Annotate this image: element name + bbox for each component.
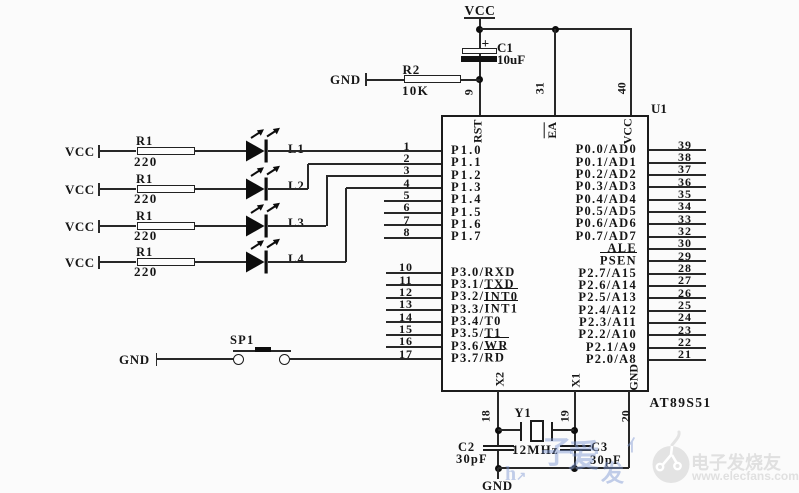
wire L2 riser to pin 2 xyxy=(308,163,441,165)
power label VCC (row L1) xyxy=(65,145,95,159)
wire LED L3 to riser xyxy=(268,225,326,227)
pin name P3.0/RXD xyxy=(451,266,516,279)
watermark blue char 1 xyxy=(541,427,572,472)
pin 32 stub xyxy=(649,236,706,238)
pin number 3 xyxy=(396,164,418,177)
power label GND (R2) xyxy=(330,73,361,87)
pin 35 stub xyxy=(649,199,706,201)
pin name P0.5/AD5 xyxy=(474,205,637,218)
pin number 14 xyxy=(393,311,419,324)
power label VCC (row L2) xyxy=(65,183,95,197)
pin 14 stub xyxy=(386,321,441,323)
wire X1 pin 19 down xyxy=(574,391,576,446)
resistor R1 body (row L2) xyxy=(137,185,195,193)
wire EA branch to pin 31 xyxy=(554,29,556,115)
pin 28 stub xyxy=(649,273,706,275)
pin 30 stub xyxy=(649,248,706,250)
pin number 23 xyxy=(674,324,696,337)
pin number 1 xyxy=(396,140,418,153)
pin name P0.7/AD7 xyxy=(474,230,637,243)
label Y1 xyxy=(515,407,532,420)
value 10uF xyxy=(497,53,525,67)
wire L3 riser to pin 3 xyxy=(326,175,441,177)
watermark blue char 2 xyxy=(568,431,600,477)
pin 38 stub xyxy=(649,162,706,164)
pin number 17 xyxy=(393,348,419,361)
wire SP1 to pin 17 xyxy=(289,358,441,360)
wire ground rail (bottom) xyxy=(498,467,629,469)
pin name P1.3 xyxy=(451,181,483,194)
pin name X1 xyxy=(569,366,582,394)
wire LED L1 to pin 1 xyxy=(268,150,441,152)
wire riser L2 xyxy=(307,164,309,189)
pin name P0.1/AD1 xyxy=(474,156,637,169)
power label GND (bottom) xyxy=(482,479,513,493)
pin name P2.7/A15 xyxy=(474,267,637,280)
wire GND pin 20 down xyxy=(628,391,630,468)
watermark blue mark small xyxy=(627,432,643,456)
switch SP1 bar xyxy=(233,350,291,352)
pin name ALE xyxy=(474,242,637,255)
switch SP1 right contact xyxy=(279,354,290,365)
pin 12 stub xyxy=(386,297,441,299)
pin name RST xyxy=(471,113,484,149)
op IC U1 AT89S51 body xyxy=(441,115,649,392)
pin number 6 xyxy=(396,201,418,214)
pin number 8 xyxy=(396,226,418,239)
wire R1 to LED L2 xyxy=(194,188,247,190)
capacitor C2 bottom plate xyxy=(483,449,514,451)
value 30pF (C2) xyxy=(456,453,488,466)
pin name P3.1/TXD xyxy=(451,278,515,291)
wire ground stem xyxy=(497,468,499,479)
wire LED L4 to riser xyxy=(268,261,346,263)
power label VCC (top) xyxy=(461,4,499,18)
pin name P2.0/A8 xyxy=(474,353,637,366)
pin number 16 xyxy=(393,335,419,348)
pin name P3.6/WR xyxy=(451,340,509,353)
pin name P2.5/A13 xyxy=(474,291,637,304)
pin 25 stub xyxy=(649,310,706,312)
wire VCC rail to pin 40 xyxy=(480,28,632,30)
pin name P2.2/A10 xyxy=(474,328,637,341)
pin 22 stub xyxy=(649,347,706,349)
watermark elecfans logo xyxy=(650,428,694,488)
capacitor C2 top plate xyxy=(483,445,514,447)
junction VCC rail / EA branch xyxy=(552,26,559,33)
pin 16 stub xyxy=(386,346,441,348)
pin number 4 xyxy=(396,177,418,190)
wire crystal to X1 xyxy=(553,429,574,431)
pin 34 stub xyxy=(649,211,706,213)
label L2 xyxy=(288,180,305,193)
wire R1 to LED L4 xyxy=(194,261,247,263)
pin name VCC (pin 40) xyxy=(621,113,634,149)
watermark blue mark h xyxy=(505,463,526,486)
pin name PSEN xyxy=(474,254,637,267)
pin 5 stub xyxy=(384,200,441,202)
pin name P2.6/A14 xyxy=(474,279,637,292)
pin name P1.1 xyxy=(451,156,483,169)
pin number 18 xyxy=(480,399,493,433)
pin 26 stub xyxy=(649,297,706,299)
pin 21 stub xyxy=(649,359,706,361)
junction X2 / crystal xyxy=(495,427,502,434)
VCC symbol bar xyxy=(464,17,495,19)
pin name P2.4/A12 xyxy=(474,304,637,317)
pin number 26 xyxy=(674,287,696,300)
pin name P3.5/T1 xyxy=(451,327,502,340)
wire VCC to R1 (row L4) xyxy=(100,261,136,263)
pin 39 stub xyxy=(649,149,706,151)
value 220 (row L2) xyxy=(134,192,158,206)
LED L2 xyxy=(244,164,284,203)
pin number 12 xyxy=(393,286,419,299)
label R1 (row L1) xyxy=(136,135,153,148)
switch SP1 actuator xyxy=(255,347,271,352)
power label GND (SP1) xyxy=(119,353,150,367)
pin 27 stub xyxy=(649,285,706,287)
pin number 22 xyxy=(674,336,696,349)
wire LED L2 to riser xyxy=(268,188,308,190)
capacitor C3 bottom plate xyxy=(560,449,591,451)
wire VCC rail down to pin 40 xyxy=(630,29,632,115)
resistor R1 body (row L4) xyxy=(137,258,195,266)
pin number 11 xyxy=(393,274,419,287)
pin number 15 xyxy=(393,323,419,336)
pin 8 stub xyxy=(384,237,441,239)
pin name X2 xyxy=(493,365,506,393)
resistor R1 body (row L1) xyxy=(137,147,195,155)
pin number 19 xyxy=(558,399,571,433)
wire VCC to R1 (row L3) xyxy=(100,225,136,227)
pin 29 stub xyxy=(649,260,706,262)
label C2 xyxy=(458,441,475,454)
pin 10 stub xyxy=(386,272,441,274)
pin number 13 xyxy=(393,298,419,311)
power label VCC (row L4) xyxy=(65,256,95,270)
pin name P0.2/AD2 xyxy=(474,168,637,181)
label C1 xyxy=(497,41,513,55)
pin name P0.6/AD6 xyxy=(474,217,637,230)
pin 15 stub xyxy=(386,334,441,336)
wire VCC to R1 (row L2) xyxy=(100,188,136,190)
capacitor C1 bottom plate xyxy=(461,56,497,62)
GND tick (R2) xyxy=(365,73,367,87)
resistor R2 body xyxy=(404,75,461,83)
pin number 40 xyxy=(615,71,628,105)
pin number 38 xyxy=(674,151,696,164)
label L3 xyxy=(288,217,305,230)
pin number 33 xyxy=(674,213,696,226)
pin number 7 xyxy=(396,214,418,227)
label L4 xyxy=(288,253,305,266)
switch SP1 left contact xyxy=(233,354,244,365)
pin name P1.0 xyxy=(451,144,483,157)
wire X2 to crystal xyxy=(498,429,521,431)
label L1 xyxy=(288,143,305,156)
pin number 30 xyxy=(674,237,696,250)
pin name GND (pin 20) xyxy=(627,359,640,395)
pin 37 stub xyxy=(649,174,706,176)
capacitor C1 top plate xyxy=(462,48,497,54)
pin number 37 xyxy=(674,163,696,176)
wire riser L3 xyxy=(326,176,328,226)
pin number 36 xyxy=(674,176,696,189)
pin number 27 xyxy=(674,274,696,287)
pin number 28 xyxy=(674,262,696,275)
wire GND to SP1 xyxy=(157,358,234,360)
resistor R1 body (row L3) xyxy=(137,222,195,230)
pin name P1.2 xyxy=(451,169,483,182)
wire VCC bar to RST node xyxy=(479,18,481,115)
wire R1 to LED L3 xyxy=(194,225,247,227)
pin 7 stub xyxy=(384,224,441,226)
value 220 (row L3) xyxy=(134,229,158,243)
LED L4 xyxy=(244,237,284,276)
junction X1 / ground rail xyxy=(571,465,578,472)
pin name P2.3/A11 xyxy=(474,316,637,329)
pin number 29 xyxy=(674,250,696,263)
value 12MHz xyxy=(512,443,559,457)
pin name P3.4/T0 xyxy=(451,315,502,328)
pin name P1.6 xyxy=(451,218,483,231)
pin 24 stub xyxy=(649,322,706,324)
pin name P1.4 xyxy=(451,193,483,206)
crystal Y1 right electrode xyxy=(551,422,553,441)
pin number 25 xyxy=(674,299,696,312)
pin name P0.0/AD0 xyxy=(474,143,637,156)
wire VCC to R1 (row L1) xyxy=(100,150,136,152)
value 220 (row L1) xyxy=(134,155,158,169)
value 10K xyxy=(402,84,429,98)
value 30pF (C3) xyxy=(590,454,622,467)
LED L3 xyxy=(244,201,284,240)
C1 polarity + xyxy=(482,37,490,51)
pin name P3.7/RD xyxy=(451,352,505,365)
pin number 32 xyxy=(674,225,696,238)
wire X2 below C2 xyxy=(497,450,499,468)
pin name P2.1/A9 xyxy=(474,341,637,354)
pin number 9 xyxy=(463,75,476,109)
label C3 xyxy=(591,441,608,454)
pin number 34 xyxy=(674,200,696,213)
pin number 20 xyxy=(619,399,632,433)
pin 6 stub xyxy=(384,212,441,214)
capacitor C3 top plate xyxy=(560,445,591,447)
watermark blue char 3 xyxy=(601,454,624,488)
pin number 10 xyxy=(393,261,419,274)
pin name P1.5 xyxy=(451,206,483,219)
label U1 xyxy=(651,102,667,116)
pin 36 stub xyxy=(649,186,706,188)
label AT89S51 xyxy=(650,396,712,410)
wire GND to R2 xyxy=(366,79,404,81)
pin number 31 xyxy=(534,71,547,105)
VCC tick (row L3) xyxy=(98,220,100,233)
label R2 xyxy=(403,63,421,77)
wire R1 to LED L1 xyxy=(194,150,247,152)
label R1 (row L2) xyxy=(136,173,153,186)
VCC tick (row L4) xyxy=(98,256,100,269)
pin number 35 xyxy=(674,188,696,201)
pin name P3.3/INT1 xyxy=(451,303,518,316)
power label VCC (row L3) xyxy=(65,220,95,234)
wire X2 pin 18 down xyxy=(497,391,499,446)
VCC tick (row L2) xyxy=(98,183,100,196)
junction RST node (R2 / C1 / pin 9) xyxy=(476,76,483,83)
wire riser L4 xyxy=(345,188,347,262)
pin number 2 xyxy=(396,152,418,165)
wire X1 below C3 xyxy=(574,450,576,468)
junction X1 / crystal xyxy=(571,427,578,434)
LED L1 xyxy=(244,126,284,165)
pin 11 stub xyxy=(386,284,441,286)
label R1 (row L4) xyxy=(136,246,153,259)
wire R2 to RST node xyxy=(461,79,480,81)
pin number 39 xyxy=(674,139,696,152)
pin name P0.4/AD4 xyxy=(474,193,637,206)
watermark elecfans chinese text xyxy=(691,449,781,475)
GND tick (SP1) xyxy=(156,353,158,366)
pin name P3.2/INT0 xyxy=(451,290,518,303)
crystal Y1 body xyxy=(530,420,545,442)
pin name P0.3/AD3 xyxy=(474,180,637,193)
value 220 (row L4) xyxy=(134,265,158,279)
pin number 24 xyxy=(674,311,696,324)
pin 13 stub xyxy=(386,309,441,311)
pin number 21 xyxy=(674,348,696,361)
watermark elecfans url xyxy=(692,469,799,483)
pin name EA (active low) xyxy=(545,115,558,145)
wire L4 riser to pin 4 xyxy=(346,187,441,189)
label R1 (row L3) xyxy=(136,210,153,223)
label SP1 xyxy=(230,334,254,347)
pin name P1.7 xyxy=(451,230,483,243)
pin 33 stub xyxy=(649,223,706,225)
pin number 5 xyxy=(396,189,418,202)
crystal Y1 left electrode xyxy=(520,422,522,441)
pin 23 stub xyxy=(649,334,706,336)
junction VCC rail / RST branch xyxy=(476,26,483,33)
junction X2 / ground rail xyxy=(495,465,502,472)
VCC tick (row L1) xyxy=(98,145,100,158)
